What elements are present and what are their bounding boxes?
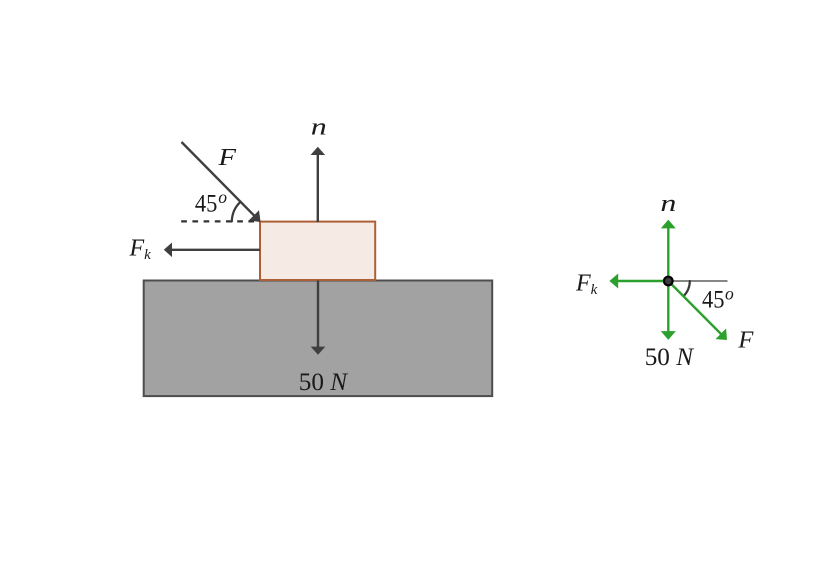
svg-text:Fk: Fk bbox=[575, 270, 598, 298]
svg-text:45: 45 bbox=[195, 188, 218, 217]
svg-text:F: F bbox=[737, 328, 753, 354]
svg-text:n: n bbox=[660, 191, 676, 217]
svg-text:n: n bbox=[311, 115, 327, 141]
svg-text:o: o bbox=[725, 283, 734, 303]
svg-text:45: 45 bbox=[702, 285, 725, 314]
svg-text:Fk: Fk bbox=[129, 235, 152, 262]
svg-text:F: F bbox=[217, 145, 236, 171]
svg-text:50 N: 50 N bbox=[299, 367, 349, 396]
svg-text:o: o bbox=[218, 187, 227, 207]
svg-text:50 N: 50 N bbox=[645, 342, 695, 371]
